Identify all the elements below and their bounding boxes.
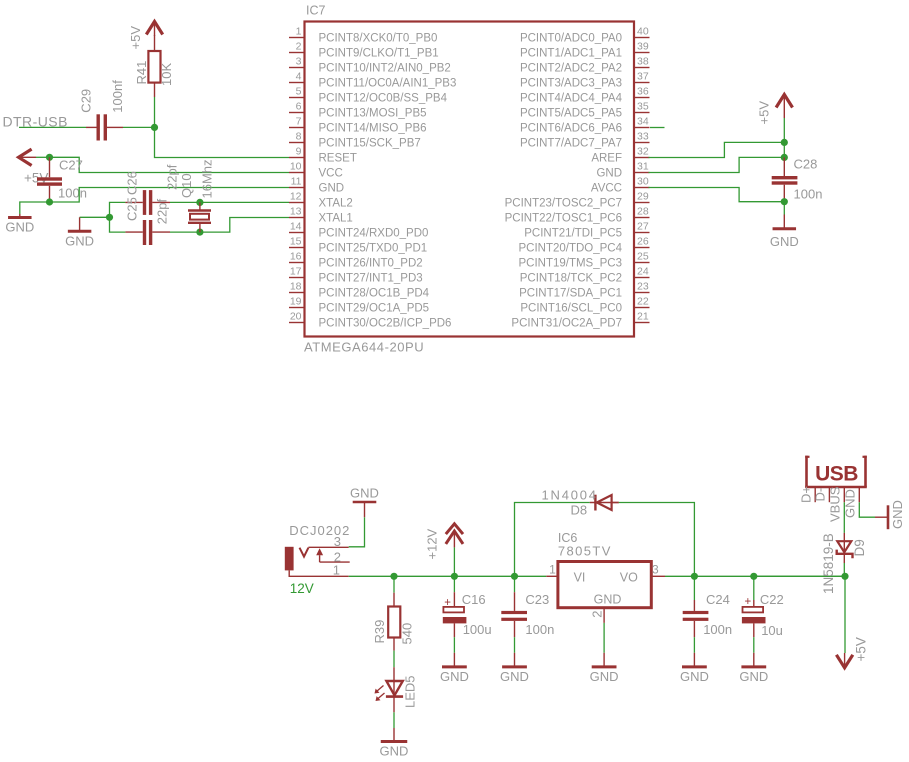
svg-text:100n: 100n [525,622,554,637]
wire +5V to VCC junction [36,156,50,158]
junction D9/+5V [841,573,848,580]
pin 32 AREF [591,145,649,164]
label Q10 [179,173,194,198]
svg-text:100n: 100n [703,622,732,637]
svg-text:PCINT20/TDO_PC4: PCINT20/TDO_PC4 [518,243,622,255]
svg-text:GND: GND [739,669,768,684]
svg-text:16: 16 [290,250,302,262]
ground GND (jack, inverted) [350,486,379,518]
wire GND to crystal caps junction [80,216,110,218]
pin 1 PCINT8/XCK0/T0_PB0 [289,25,437,44]
svg-text:PCINT7/ADC7_PA7: PCINT7/ADC7_PA7 [520,138,622,150]
svg-text:24: 24 [637,265,649,277]
wire main rail VI side [394,575,546,577]
svg-text:AREF: AREF [591,153,622,165]
junction crystal caps GND [106,214,113,221]
wire C25 to crystal bottom [170,231,200,233]
svg-text:C27: C27 [59,157,83,172]
wire C27 bottom to GND symbol [20,202,50,214]
value 22pf (C26) [165,164,180,190]
svg-text:PCINT5/ADC5_PA5: PCINT5/ADC5_PA5 [520,108,622,120]
svg-text:PCINT22/TOSC1_PC6: PCINT22/TOSC1_PC6 [505,213,622,225]
pin GND (USB) [843,488,860,518]
svg-text:R41: R41 [134,61,149,85]
svg-text:PCINT11/OC0A/AIN1_PB3: PCINT11/OC0A/AIN1_PB3 [319,78,457,90]
svg-text:30: 30 [637,175,649,187]
label +12V [425,528,440,559]
pin 1 label (jack) [333,562,340,577]
svg-text:+5V: +5V [757,101,772,125]
pin 2 label (IC6) [590,611,605,618]
wire GND pin 31 to C28 top [649,157,785,172]
pin 5 PCINT12/OC0B/SS_PB4 [289,85,448,104]
pin 24 PCINT18/TCK_PC2 [520,265,650,284]
wire pin 34 stub [650,127,665,129]
resistor R41 [148,35,160,97]
svg-text:+12V: +12V [425,528,440,559]
wire AVCC pin 30 to C28 bottom [649,188,785,202]
label D9 [852,539,867,556]
label C26 [125,171,140,195]
pin 7 PCINT14/MISO_PB6 [289,115,427,134]
value 22pf (C25) [155,199,170,225]
wire junction to C24 [693,576,695,600]
crystal Q10 [188,202,211,232]
junction C22 [750,573,757,580]
value 100u [463,622,492,637]
svg-text:10u: 10u [761,623,783,638]
svg-text:PCINT30/OC2B/ICP_PD6: PCINT30/OC2B/ICP_PD6 [319,318,452,330]
pin 25 PCINT19/TMS_PC3 [518,250,649,269]
pin 3 label (IC6) [652,563,659,577]
svg-text:PCINT8/XCK0/T0_PB0: PCINT8/XCK0/T0_PB0 [319,33,438,45]
svg-text:PCINT23/TOSC2_PC7: PCINT23/TOSC2_PC7 [505,198,622,210]
svg-text:PCINT16/SCL_PC0: PCINT16/SCL_PC0 [520,303,622,315]
svg-text:PCINT25/TXD0_PD1: PCINT25/TXD0_PD1 [319,243,428,255]
pin 15 PCINT25/TXD0_PD1 [289,235,427,254]
svg-text:2: 2 [590,611,605,618]
svg-text:23: 23 [637,280,649,292]
ground GND (C23) [500,653,529,684]
diode D9 1N5819-B (schottky) [837,533,853,563]
pin VO label [620,571,638,585]
svg-text:PCINT29/OC1A_PD5: PCINT29/OC1A_PD5 [319,303,430,315]
svg-text:C24: C24 [706,592,730,607]
pin 14 PCINT24/RXD0_PD0 [289,220,428,239]
pin 13 XTAL1 [289,205,353,224]
wire junction to C16 [453,576,455,592]
pin 4 PCINT11/OC0A/AIN1_PB3 [289,70,456,89]
connector DCJ0202 body [285,547,350,577]
svg-text:C26: C26 [125,171,140,195]
label USB [815,463,858,486]
svg-text:RESET: RESET [319,153,357,165]
wire junction to +5V down [844,576,846,653]
wire crystal to XTAL1 pin 13 [200,218,289,233]
pin 35 PCINT5/ADC5_PA5 [520,100,650,119]
wire junction to C23 [514,576,516,592]
svg-text:7805TV: 7805TV [558,544,612,559]
pin VBUS (USB) [828,486,845,522]
capacitor C29 [86,114,123,140]
pin 3 PCINT10/INT2/AIN0_PB2 [289,55,451,74]
svg-text:16Mhz: 16Mhz [200,159,215,198]
svg-text:9: 9 [296,145,302,157]
wire R41 to junction [154,97,156,127]
ground GND (USB, rotated) [875,500,905,529]
label C25 [125,197,140,221]
svg-text:15: 15 [290,235,302,247]
pin GND label (IC6) [594,593,622,607]
ground GND (C16) [440,653,469,684]
svg-text:18: 18 [290,280,302,292]
label R39 [372,620,387,644]
svg-text:C16: C16 [462,592,486,607]
wire C22 to GND [753,637,755,653]
svg-text:PCINT4/ADC4_PA4: PCINT4/ADC4_PA4 [520,93,623,105]
svg-text:29: 29 [637,190,649,202]
svg-text:39: 39 [637,40,649,52]
wire junction to C22 [753,576,755,600]
label D8 [571,503,588,518]
LED LED5 [375,667,404,712]
svg-text:D+: D+ [799,486,814,503]
wire XTAL2 net to pin 12 [170,201,289,203]
ground GND (LED5) [380,728,409,759]
svg-text:PCINT13/MOSI_PB5: PCINT13/MOSI_PB5 [319,108,427,120]
pin 40 PCINT0/ADC0_PA0 [520,25,650,44]
junction C27 bottom/GND [46,198,53,205]
label C22 [760,592,784,607]
pin 19 PCINT29/OC1A_PD5 [289,295,429,314]
wire GND net to pin 11 [50,188,290,203]
capacitor C22 (polarized) [742,596,766,637]
supply +5V above R41 [146,22,162,37]
svg-text:11: 11 [291,175,302,187]
value 100n (C27) [58,186,87,201]
svg-text:PCINT2/ADC2_PA2: PCINT2/ADC2_PA2 [520,63,622,75]
pin VI stub [546,575,558,577]
svg-text:PCINT9/CLKO/T1_PB1: PCINT9/CLKO/T1_PB1 [319,48,439,60]
svg-text:13: 13 [290,205,302,217]
capacitor C25 (lower 22pf) [125,220,170,245]
svg-text:37: 37 [637,70,649,82]
ground GND (C28) [770,215,799,250]
wire R39 to LED5 [393,651,395,668]
svg-text:22: 22 [637,295,649,307]
pin 2 GND stub [603,608,605,623]
pin 23 PCINT17/SDA_PC1 [519,280,649,299]
svg-text:PCINT18/TCK_PC2: PCINT18/TCK_PC2 [520,273,622,285]
pin 22 PCINT16/SCL_PC0 [520,295,649,314]
svg-text:PCINT21/TDI_PC5: PCINT21/TDI_PC5 [524,228,622,240]
resistor R39 [388,593,400,651]
svg-text:100n: 100n [794,187,823,202]
pin 29 PCINT23/TOSC2_PC7 [505,190,650,209]
svg-text:D9: D9 [852,539,867,556]
label IC6 [558,531,578,545]
pin 20 PCINT30/OC2B/ICP_PD6 [289,310,451,329]
svg-text:28: 28 [637,205,649,217]
IC7 reference label [306,4,326,18]
svg-text:GND: GND [594,593,622,607]
wire C16 to GND [453,637,455,653]
pin D+ (USB) [799,486,816,503]
pin 2 PCINT9/CLKO/T1_PB1 [289,40,439,59]
value 100n (C23) [525,622,554,637]
svg-text:XTAL1: XTAL1 [319,213,353,225]
svg-text:20: 20 [290,310,302,322]
svg-text:GND: GND [440,669,469,684]
svg-text:19: 19 [290,295,302,307]
junction crystal top [196,199,203,206]
value 540 [400,623,415,645]
supply +12V [446,524,463,548]
pin 21 PCINT31/OC2A_PD7 [511,310,649,329]
supply +5V down (output) [836,653,852,668]
wire D9 to junction [843,563,845,576]
capacitor C27 [37,157,62,199]
svg-text:PCINT17/SDA_PC1: PCINT17/SDA_PC1 [519,288,622,300]
junction R39 [390,573,397,580]
svg-text:25: 25 [637,250,649,262]
capacitor C23 [501,592,527,637]
pin 30 AVCC [591,175,650,194]
svg-text:26: 26 [637,235,649,247]
svg-text:AVCC: AVCC [591,183,622,195]
svg-text:GND: GND [680,669,709,684]
svg-text:C23: C23 [525,592,549,607]
pin 6 PCINT13/MOSI_PB5 [289,100,427,119]
svg-text:GND: GND [5,220,34,235]
junction crystal bottom [196,229,203,236]
value 16Mhz [200,159,215,198]
wire junction to junction C28 [783,142,785,157]
svg-text:PCINT31/OC2A_PD7: PCINT31/OC2A_PD7 [511,318,622,330]
svg-text:PCINT24/RXD0_PD0: PCINT24/RXD0_PD0 [319,228,429,240]
wire IC6 GND to ground [603,623,605,653]
junction +5V/C27 top [46,154,53,161]
supply +5V left arrow [19,149,36,165]
pin 16 PCINT26/INT0_PD2 [289,250,423,269]
wire D8 to VO rail [619,503,695,577]
svg-text:+5V: +5V [128,26,143,50]
svg-text:VBUS: VBUS [828,486,843,522]
wire VBUS to D9 [843,502,845,533]
svg-text:PCINT0/ADC0_PA0: PCINT0/ADC0_PA0 [520,33,622,45]
junction C28 bottom [781,198,788,205]
wire AREF pin 32 to +5V [649,142,785,157]
junction C16/+12V [451,573,458,580]
wire jack pin3 to GND [349,517,365,547]
svg-text:Q10: Q10 [179,173,194,198]
svg-text:PCINT26/INT0_PD2: PCINT26/INT0_PD2 [319,258,423,270]
label C16 [462,592,486,607]
ground GND (C24) [680,653,709,684]
svg-text:C28: C28 [794,157,818,172]
svg-text:1N5819-B: 1N5819-B [821,533,836,594]
svg-text:R39: R39 [372,620,387,644]
svg-text:PCINT19/TMS_PC3: PCINT19/TMS_PC3 [518,258,622,270]
svg-text:14: 14 [290,220,302,232]
svg-text:GND: GND [890,500,905,529]
pin 11 GND [289,175,344,194]
supply +5V (C28) [776,95,792,119]
ground GND (IC6) [590,653,619,684]
svg-text:C25: C25 [125,197,140,221]
wire main rail VO side [665,575,845,577]
net label DTR-USB [3,114,68,130]
pin 8 PCINT15/SCK_PB7 [289,130,421,149]
pin 37 PCINT3/ADC3_PA3 [520,70,650,89]
svg-text:IC7: IC7 [306,4,326,18]
svg-text:C22: C22 [760,592,784,607]
svg-text:5: 5 [296,85,302,97]
svg-text:GND: GND [843,489,858,518]
svg-text:GND: GND [590,669,619,684]
svg-text:3: 3 [296,55,302,67]
label +5V (C28) [757,101,772,125]
junction C29/R41/RESET [151,124,158,131]
label C28 [794,157,818,172]
svg-text:10K: 10K [159,63,174,86]
diode D8 1N4004 [590,495,619,511]
net label 12V [290,581,314,596]
svg-text:PCINT6/ADC6_PA6: PCINT6/ADC6_PA6 [520,123,622,135]
svg-text:1: 1 [549,563,556,577]
svg-text:22pf: 22pf [155,199,170,225]
label C29 [79,89,94,113]
pin 1 label (IC6) [549,563,556,577]
IC7 value label ATMEGA644-20PU [304,340,424,355]
wire +12V to rail [453,547,455,576]
pin 34 PCINT6/ADC6_PA6 [520,115,650,134]
svg-text:PCINT14/MISO_PB6: PCINT14/MISO_PB6 [319,123,427,135]
label LED5 [403,675,418,708]
label R41 [134,61,149,85]
pin 27 PCINT21/TDI_PC5 [524,220,649,239]
ground GND (crystal) [65,217,94,248]
junction C28 top [781,154,788,161]
label C24 [706,592,730,607]
svg-text:GND: GND [596,168,622,180]
svg-text:VI: VI [574,571,586,585]
svg-text:100nf: 100nf [110,80,125,113]
pin 9 RESET [289,145,357,164]
svg-text:6: 6 [296,100,302,112]
wire +5V to junction [783,118,785,142]
svg-text:27: 27 [637,220,649,232]
pin D- (USB) [813,488,830,502]
svg-text:10: 10 [290,160,302,172]
ground GND (C22) [739,653,768,684]
svg-text:XTAL2: XTAL2 [319,198,353,210]
ground GND (C27) [5,214,34,235]
svg-text:34: 34 [637,115,649,127]
svg-text:DCJ0202: DCJ0202 [289,523,350,538]
pin 31 GND [596,160,649,179]
wire VCC net to pin 10 [50,157,290,172]
label +5V (left) [24,171,48,186]
wire junction to RESET pin 9 [155,127,290,157]
svg-text:PCINT3/ADC3_PA3: PCINT3/ADC3_PA3 [520,78,622,90]
svg-text:7: 7 [296,115,302,127]
pin 12 XTAL2 [289,190,353,209]
svg-text:USB: USB [815,463,858,486]
svg-text:3: 3 [652,563,659,577]
svg-text:12V: 12V [290,581,314,596]
wire C23 junction up to D8 [515,503,590,577]
svg-text:VO: VO [620,571,638,585]
svg-text:3: 3 [334,534,341,549]
wire junction to R39 [393,576,395,592]
wire C24 to GND [693,637,695,653]
svg-text:540: 540 [400,623,415,645]
wire junction to C25 left [110,217,126,232]
svg-text:PCINT12/OC0B/SS_PB4: PCINT12/OC0B/SS_PB4 [319,93,448,105]
pin 28 PCINT22/TOSC1_PC6 [505,205,650,224]
value 100nf [110,80,125,113]
pin VI label [574,571,586,585]
svg-text:36: 36 [637,85,649,97]
wire rail to D9 junction [754,575,845,577]
svg-text:LED5: LED5 [403,675,418,708]
capacitor C26 (upper 22pf) [125,190,170,215]
IC IC7 ATMEGA644-20PU body [305,22,635,337]
pin 18 PCINT28/OC1B_PD4 [289,280,430,299]
svg-text:12: 12 [290,190,302,202]
pin 39 PCINT1/ADC1_PA1 [520,40,650,59]
label C23 [525,592,549,607]
svg-text:1N4004: 1N4004 [542,488,598,503]
svg-text:31: 31 [637,160,649,172]
svg-text:D-: D- [813,488,828,502]
label +5V (output) [854,637,869,661]
svg-text:GND: GND [65,234,94,249]
wire C23 to GND [514,637,516,653]
svg-text:D8: D8 [571,503,588,518]
pin 2 label (jack) [334,550,341,565]
wire jack pin1 to main rail [349,575,394,577]
wire LED5 to GND [393,712,395,728]
value 10K [159,63,174,86]
svg-text:1: 1 [333,562,340,577]
svg-text:+5V: +5V [854,637,869,661]
label 1N5819-B [821,533,836,594]
label +5V (R41) [128,26,143,50]
pin 3 label (jack) [334,534,341,549]
svg-text:100u: 100u [463,622,492,637]
svg-text:35: 35 [637,100,649,112]
pin 36 PCINT4/ADC4_PA4 [520,85,650,104]
capacitor C16 (polarized) [443,592,467,637]
svg-text:32: 32 [637,145,649,157]
wire junction to C26 left [110,202,126,217]
svg-text:C29: C29 [79,89,94,113]
svg-text:GND: GND [380,744,409,759]
svg-text:GND: GND [350,486,379,501]
pin 26 PCINT20/TDO_PC4 [518,235,649,254]
svg-text:4: 4 [296,70,302,82]
label DCJ0202 [289,523,350,538]
label 1N4004 [542,488,598,503]
svg-text:PCINT15/SCK_PB7: PCINT15/SCK_PB7 [319,138,421,150]
junction +5V/AREF [781,139,788,146]
svg-text:VCC: VCC [319,168,343,180]
junction C24/D8 riser [691,573,698,580]
wire C28 bottom to GND [783,202,785,215]
pin 17 PCINT27/INT1_PD3 [289,265,423,284]
